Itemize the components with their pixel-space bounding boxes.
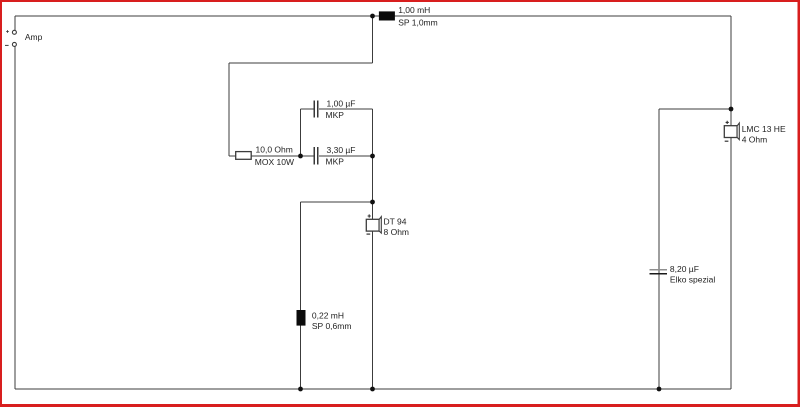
svg-text:3,30 µF: 3,30 µF (327, 145, 356, 155)
wire C1 row left (301, 108, 314, 110)
Amp terminal plus (12, 30, 16, 34)
wire C1 right down (372, 109, 374, 156)
node G junction bottom C3 branch (657, 387, 662, 392)
wire C1 row right (319, 108, 373, 110)
svg-text:LMC 13 HE: LMC 13 HE (742, 124, 786, 134)
speaker U2 LMC 13 HE 4 Ohm (724, 121, 739, 141)
wire down to inductor L2 (300, 202, 302, 310)
svg-text:MKP: MKP (326, 157, 345, 167)
node C junction tweeter top (370, 200, 375, 205)
wire horizontal to resistor branch (229, 62, 373, 64)
node E junction bottom left branch (298, 387, 303, 392)
wire to tweeter (372, 202, 374, 219)
svg-text:4 Ohm: 4 Ohm (742, 135, 768, 145)
svg-text:8 Ohm: 8 Ohm (384, 227, 410, 237)
svg-text:10,0 Ohm: 10,0 Ohm (256, 145, 293, 155)
wire Amp plus terminal up (14, 16, 16, 30)
Amp terminal minus (12, 42, 16, 46)
node D junction right top (729, 107, 734, 112)
wire resistor row left (229, 155, 314, 157)
svg-text:8,20 µF: 8,20 µF (670, 264, 699, 274)
wire tweeter to bottom bus (372, 231, 374, 389)
wire bottom bus (15, 388, 731, 390)
svg-text:1,00 mH: 1,00 mH (398, 5, 430, 15)
wire L2 to bottom bus (300, 326, 302, 390)
resistor R1 10,0 Ohm MOX 10W (236, 152, 252, 160)
node B junction caps right (370, 154, 375, 159)
node F junction bottom tweeter branch (370, 387, 375, 392)
inductor L1 1,00 mH (379, 11, 395, 20)
capacitor C1 1,00 uF MKP (314, 100, 317, 117)
wire node A up to C1 row (300, 109, 302, 156)
svg-text:MOX 10W: MOX 10W (255, 157, 294, 167)
wire resistor branch vertical (228, 63, 230, 156)
wire node B down (372, 156, 374, 202)
wire node D left (659, 108, 731, 110)
capacitor C3 8,20 uF Elko (650, 270, 668, 274)
capacitor C2 3,30 uF MKP (314, 147, 317, 164)
svg-text:MKP: MKP (326, 110, 345, 120)
svg-text:Amp: Amp (25, 32, 43, 42)
node A junction resistor/caps (298, 154, 303, 159)
svg-text:DT 94: DT 94 (384, 217, 407, 227)
inductor L2 0,22 mH (297, 310, 306, 326)
svg-text:Elko spezial: Elko spezial (670, 274, 715, 284)
tweeter U1 DT 94 8 Ohm (366, 214, 381, 234)
wire resistor row right of C2 (319, 155, 373, 157)
wire from top junction down (372, 16, 374, 63)
node junction top (370, 14, 375, 19)
wire Amp minus terminal down left side (14, 46, 16, 389)
svg-text:1,00 µF: 1,00 µF (327, 99, 356, 109)
svg-text:SP 1,0mm: SP 1,0mm (398, 18, 438, 28)
wire top bus from Amp+ to right (15, 15, 731, 17)
wire node C left (301, 201, 373, 203)
svg-text:0,22 mH: 0,22 mH (312, 310, 344, 320)
svg-text:SP 0,6mm: SP 0,6mm (312, 321, 352, 331)
wire down to C3 (658, 109, 660, 389)
wire right main vertical (730, 16, 732, 389)
